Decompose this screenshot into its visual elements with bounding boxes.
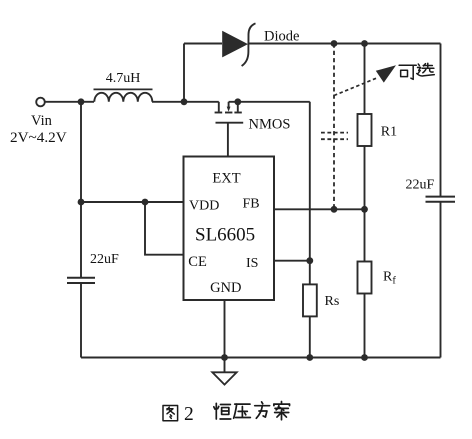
wire VDD pin bbox=[81, 201, 184, 203]
node J junction (IS) bbox=[306, 257, 313, 264]
node I junction (FB R1/Rf) bbox=[361, 206, 368, 213]
capacitor C3 optional (dashed) bbox=[321, 133, 348, 140]
glyph 方 bbox=[255, 402, 270, 418]
capacitor C1 22uF input bbox=[67, 278, 95, 283]
svg-text:FB: FB bbox=[243, 197, 260, 212]
svg-text:4.7uH: 4.7uH bbox=[106, 71, 141, 86]
glyph 压 bbox=[234, 404, 251, 418]
svg-text:22uF: 22uF bbox=[406, 178, 435, 193]
node K junction (GND) bbox=[221, 354, 228, 361]
op-amp U1 SL6605 box bbox=[184, 157, 275, 301]
svg-text:EXT: EXT bbox=[212, 171, 240, 187]
svg-text:CE: CE bbox=[188, 254, 207, 270]
svg-text:Rf: Rf bbox=[383, 270, 396, 287]
svg-text:Vin: Vin bbox=[31, 113, 53, 129]
glyph 案 bbox=[274, 402, 290, 420]
caption 图 2 恒压方案 bbox=[163, 405, 178, 420]
glyph 恒 bbox=[214, 403, 231, 419]
resistor Rs bbox=[303, 261, 317, 358]
node E junction (NMOS bulk) bbox=[234, 98, 241, 105]
svg-text:22uF: 22uF bbox=[90, 252, 119, 267]
glyph 可 bbox=[399, 65, 416, 79]
svg-text:R1: R1 bbox=[381, 125, 397, 140]
wire CE tie down bbox=[145, 202, 184, 255]
wire node B up to diode bbox=[183, 44, 185, 102]
glyph 选 bbox=[417, 63, 434, 76]
wire output cap to bottom rail bbox=[440, 202, 442, 358]
glyph 图 bbox=[163, 405, 178, 420]
ground symbol bbox=[212, 358, 236, 385]
svg-text:NMOS: NMOS bbox=[249, 117, 291, 133]
inductor L1 4.7uH bbox=[81, 89, 153, 101]
wire terminal to node A bbox=[45, 101, 81, 103]
node L junction (Rf bottom) bbox=[361, 354, 368, 361]
svg-text:VDD: VDD bbox=[189, 199, 219, 214]
wire NMOS source down to IS node bbox=[309, 102, 311, 261]
wire NMOS source/bulk to right bbox=[229, 101, 310, 103]
svg-text:GND: GND bbox=[210, 280, 241, 296]
wire input cap to bottom rail bbox=[80, 283, 82, 358]
diode D1 bbox=[222, 23, 255, 66]
dashed annotation arrow to optional label bbox=[334, 65, 396, 95]
capacitor C2 22uF output bbox=[426, 197, 456, 202]
node C junction (dashed cap top) bbox=[331, 40, 338, 47]
wire IS pin bbox=[274, 260, 310, 262]
svg-text:SL6605: SL6605 bbox=[195, 225, 255, 246]
wire inductor to node B bbox=[152, 101, 219, 103]
node H junction (FB dashed) bbox=[331, 206, 338, 213]
input terminal Vin bbox=[36, 98, 45, 107]
wire right rail down to output cap bbox=[440, 44, 442, 197]
wire to diode anode bbox=[184, 43, 222, 45]
node G junction (CE tie) bbox=[142, 199, 149, 206]
wire NMOS gate to EXT pin bbox=[227, 123, 229, 157]
label 可选 (optional) CJK drawn as paths bbox=[399, 63, 434, 79]
resistor Rf bbox=[358, 209, 372, 357]
svg-text:2V~4.2V: 2V~4.2V bbox=[10, 129, 67, 146]
dashed optional branch wire bbox=[333, 44, 335, 210]
svg-text:IS: IS bbox=[246, 256, 258, 271]
svg-text:2: 2 bbox=[184, 404, 194, 425]
bottom rail wire bbox=[81, 357, 441, 359]
wire left rail down bbox=[80, 102, 82, 278]
node B junction bbox=[181, 98, 188, 105]
node D junction (R1 top) bbox=[361, 40, 368, 47]
wire FB pin bbox=[274, 208, 365, 210]
svg-text:Rs: Rs bbox=[325, 294, 340, 309]
wire diode cathode to top-right bbox=[249, 43, 441, 45]
node F junction (left rail VDD) bbox=[78, 199, 85, 206]
node M junction (Rs bottom) bbox=[306, 354, 313, 361]
node A junction bbox=[78, 98, 85, 105]
transistor Q1 NMOS bbox=[215, 102, 244, 123]
wire GND pin down bbox=[224, 300, 226, 358]
svg-text:Diode: Diode bbox=[264, 29, 299, 45]
resistor R1 bbox=[358, 44, 372, 210]
